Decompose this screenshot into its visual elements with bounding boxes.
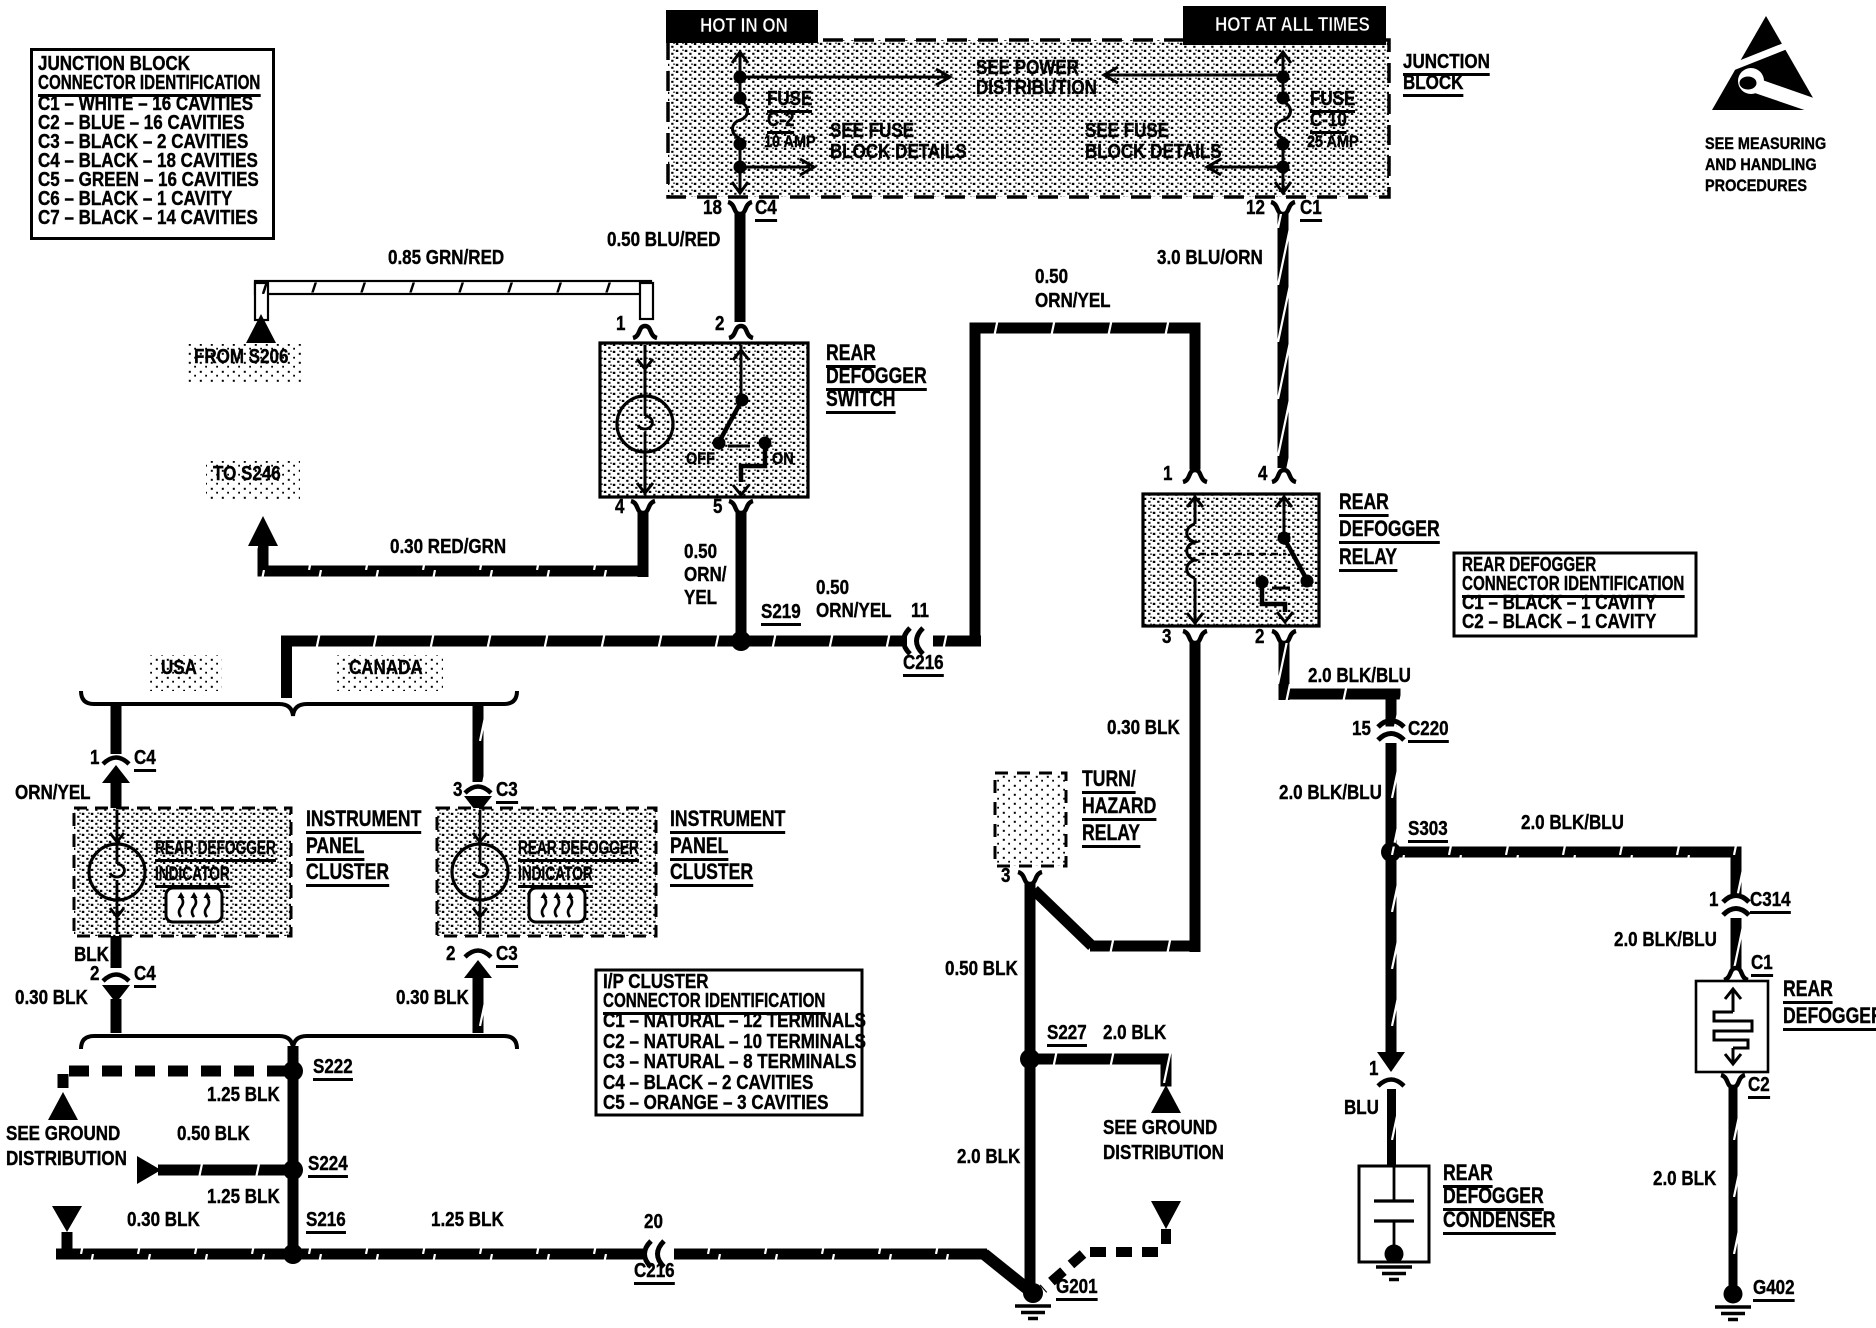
label DISTRIBUTION [976,78,1097,98]
label REAR [1339,491,1389,517]
coil leg bottom arrowhead [1187,613,1203,623]
label BLU [1344,1098,1379,1118]
label 2 [90,964,99,984]
label 1.25 BLK [207,1187,280,1207]
label C1 - WHITE - 16 CAVITIES [38,94,253,114]
label REAR [1443,1162,1493,1188]
label JUNCTION [1403,52,1490,76]
switch fixed contact dot [736,394,749,407]
arrow from hot at all times line (left-pointing) [1106,74,1277,77]
label 1.25 BLK [431,1210,504,1230]
see ground distribution arrow (right triangle) [137,1156,161,1184]
switch lamp leg line top [644,345,647,396]
label C1 - BLACK - 1 CAVITY [1462,593,1656,613]
label PANEL [306,835,364,861]
wire 0.50 ORN/YEL horizontal through S219 [281,636,907,647]
elbow right [1279,689,1401,700]
relay common contact dot [1256,576,1269,589]
label REAR [1783,978,1833,1004]
ground distribution down triangle (dashed branch) [1151,1201,1181,1229]
see ground distribution arrow (up triangle) [1151,1085,1181,1113]
fuse C-10 bottom arrow [1275,182,1291,193]
switch pin 1 bell [633,326,657,338]
label CONNECTOR IDENTIFICATION [38,73,260,97]
label S219 [761,602,801,626]
ON contact step down to pin 5 [741,443,765,482]
label SEE FUSE [830,121,914,141]
connector C4 cavity 2 crescent [103,975,129,982]
label CONNECTOR IDENTIFICATION [603,991,825,1015]
label 5 [713,497,722,517]
label C1 [1751,953,1773,977]
label TO S246 [213,464,281,484]
label C4 [134,748,156,772]
label SEE GROUND [6,1124,120,1144]
switch lever (to OFF contact) [719,400,742,442]
wire 0.50 BLK into S224 [158,1165,298,1176]
top split brace [81,691,517,716]
rear defogger switch box (stippled) [600,343,808,497]
relay coil leg line [1194,496,1197,524]
instrument panel cluster USA box (dashed, stippled) [74,808,291,936]
label C-10 [1310,110,1347,134]
FROM S206 arrow (up triangle) [246,314,276,343]
label JUNCTION BLOCK [38,54,190,74]
connector C4 cavity 1 crescent [103,758,129,765]
label REAR DEFOGGER [518,839,639,862]
label RELAY [1082,822,1140,848]
lamp leg bottom arrowhead [637,483,653,493]
USA branch wire upper [111,706,122,754]
label C1 [1300,198,1322,222]
label SWITCH [826,388,895,414]
label 25 AMP [1307,133,1359,150]
label REAR DEFOGGER [155,839,276,862]
switch pin 5 bell [729,501,753,513]
label USA [161,658,197,678]
label C216 [903,653,944,677]
CANADA indicator lamp leg top [479,810,482,844]
bottom 1.25 BLK wire right segment [674,1249,987,1260]
turn/hazard relay box (dashed, light stipple) [995,773,1066,866]
label 1 [1163,464,1172,484]
label C4 - BLACK - 2 CAVITIES [603,1073,813,1093]
relay switch leg from pin 4 [1283,496,1286,534]
connector C314 cavity 1 (inline crescents) [1723,896,1749,916]
label 1.25 BLK [207,1085,280,1105]
USA indicator lamp leg bottom [116,900,119,934]
label CONDENSER [1443,1209,1555,1235]
switch pin 2 bell [729,326,753,338]
label 0.30 RED/GRN [390,537,506,557]
OFF contact dot [713,437,726,450]
TO S246 arrow (up triangle) [248,516,278,546]
G402 ground symbol [1715,1307,1751,1320]
top horizontal 0.50 ORN/YEL wire [970,323,1201,334]
label ORN/YEL [1035,291,1111,311]
fuse C-2 element (squiggle) [733,102,748,138]
node dots on fuse C-2 line [734,71,747,84]
label S224 [308,1154,348,1178]
drop to relay pin 1 [1190,323,1201,470]
label S222 [313,1057,353,1081]
stub below triangle [62,1232,73,1256]
label BLOCK DETAILS [1085,142,1222,162]
wire 2.0 BLK from S227 down to G201 [1025,1059,1036,1287]
label 2.0 BLK/BLU [1279,783,1382,803]
label FUSE [767,89,812,113]
fuse C-10 top arrow [1275,52,1291,63]
wire BLK below USA box [111,936,122,968]
label REAR DEFOGGER [1462,555,1596,575]
label 11 [911,601,929,621]
CANADA defogger indicator icon [529,888,585,922]
label 3.0 BLU/ORN [1157,248,1263,268]
dashed 1.25 BLK wire from S222 left [62,1066,287,1077]
label SEE GROUND [1103,1118,1217,1138]
fuse C-10 vertical line [1282,52,1285,104]
label SEE FUSE [1085,121,1169,141]
wire 0.50 BLK from turn/hazard pin 3 down to S227 [1025,884,1036,1065]
drop to C314 [1731,847,1742,896]
label 0.30 BLK [127,1210,200,1230]
label CONNECTOR IDENTIFICATION [1462,574,1684,598]
see ground distribution arrow (up triangle, left) [48,1092,78,1120]
G201 ground dot [1023,1283,1043,1303]
label INDICATOR [155,865,230,888]
label C-2 [767,110,794,134]
relay switch leg arrowhead up [1276,497,1292,507]
label 0.50 BLK [177,1124,250,1144]
label 0.50 [816,578,849,598]
label C220 [1408,719,1449,743]
rear defogger C1 bell [1724,968,1748,980]
USA indicator lamp leg top [116,810,119,844]
bottom merge brace [81,1036,517,1049]
label RELAY [1339,546,1397,572]
node dots on fuse C-10 line [1277,71,1290,84]
thin wire 0.85 GRN/RED (double-line with hatch) [255,281,653,320]
connector C3 cavity 2 crescent [465,951,491,958]
coil leg bottom [1194,578,1197,624]
ESD warning triangle symbol [1712,16,1828,116]
bottom 0.30 BLK down triangle [52,1206,82,1232]
connector C4 cavity 2 arrow down [102,985,130,1003]
label DEFOGGER [826,365,927,391]
wire from switch pin 5 down to S219 [736,513,747,647]
S222 splice dot [283,1061,303,1081]
pin 2 inner arrowhead [1277,612,1293,622]
USA branch wire lower (ORN/YEL) [111,779,122,809]
label G201 [1056,1277,1098,1301]
pin 12 connector C1 (bell) [1271,202,1295,214]
label 2 [1255,627,1264,647]
diagonal wire to turn/hazard pin 3 [1034,890,1092,946]
label BLOCK DETAILS [830,142,967,162]
label DEFOGGER [1339,518,1440,544]
elbow to turn/hazard relay [1090,941,1196,952]
label C7 - BLACK - 14 CAVITIES [38,208,258,228]
relay coil [1187,524,1195,578]
fuse C-2 top arrow [732,52,748,63]
S216 splice dot [283,1244,303,1264]
wire drop from ORN/YEL to country split [281,641,292,698]
label DISTRIBUTION [1103,1143,1224,1163]
FROM S206 label stipple background [186,344,302,382]
label OFF [686,450,715,467]
condenser ground dot [1385,1245,1404,1264]
label C3 [496,780,518,804]
label 2.0 BLK/BLU [1521,813,1624,833]
label FROM S206 [194,347,288,367]
CANADA rear defogger indicator bulb [452,844,508,900]
label 0.30 BLK [15,988,88,1008]
label REAR [826,342,876,368]
wire 0.30 RED/GRN horizontal [258,566,649,577]
label 4 [1258,464,1267,484]
label 3 [453,780,462,800]
label CLUSTER [306,861,389,887]
fuse C-2 bottom arrow [732,182,748,193]
wire from relay pin 3 down (0.30 BLK) [1190,643,1201,952]
label 0.50 BLU/RED [607,230,720,250]
label 1 [616,314,625,334]
label C2 - NATURAL - 10 TERMINALS [603,1032,866,1052]
label SEE POWER [976,58,1079,78]
label PROCEDURES [1705,177,1807,194]
relay pin 2 bell [1272,631,1296,643]
rear defogger grid element [1714,1012,1752,1048]
G402 ground dot [1724,1285,1743,1304]
label 10 AMP [764,133,816,150]
ground bus wire from brace through S222 S224 S216 [288,1046,299,1254]
label 1 (S303 connector) [1369,1059,1378,1079]
wire 0.30 BLK to bottom brace [111,999,122,1033]
wire 2.0 BLK/BLU from C314 to rear defogger C1 [1731,918,1742,968]
connector C3 cavity 3 arrow down [464,796,492,814]
label 0.50 [684,542,717,562]
switch bulb [617,396,673,452]
coil leg top arrowhead [1187,497,1203,507]
label INSTRUMENT [306,808,421,834]
wire 2.0 BLK down to G402 [1729,1087,1738,1288]
label 3 [1001,866,1010,886]
connector C216 cavity 20 (inline crescents) [645,1241,665,1267]
label 15 [1352,719,1371,739]
label C2 - BLACK - 1 CAVITY [1462,612,1656,632]
label C216 [634,1261,675,1285]
label ON [772,450,794,467]
USA label stipple background [148,655,222,691]
label SEE MEASURING [1705,135,1826,152]
label C314 [1750,890,1791,914]
CANADA label stipple background [336,655,443,691]
ON contact dot [759,437,772,450]
wire 3.0 BLU/ORN from pin 12 down to relay pin 4 [1278,214,1289,468]
wire BLU to condenser [1387,1089,1396,1166]
label G402 [1753,1278,1795,1302]
bottom 1.25 BLK wire left segment [56,1249,646,1260]
throw dash between OFF and ON [728,445,750,448]
rear defogger element line + arrows [1725,989,1741,999]
label S303 [1408,819,1448,843]
label C4 [134,964,156,988]
USA defogger indicator icon [166,888,222,922]
wire from switch pin 4 down [638,513,649,577]
wire 0.30 BLK below CANADA box [473,974,484,1033]
connector C3 cavity 2 arrow up [464,960,492,978]
connector C220 cavity 15 (inline crescents) [1378,721,1404,741]
label 18 [703,198,722,218]
label HOT AT ALL TIMES [1215,15,1370,35]
label 2 [446,944,455,964]
drop to C220 [1386,689,1397,727]
label C3 [496,944,518,968]
arrow see fuse block details right fuse (left-pointing) [1209,166,1277,169]
label INDICATOR [518,865,593,888]
relay contact dash [1272,587,1290,590]
wire 2.0 BLK from S227 right [1030,1054,1171,1065]
label INSTRUMENT [670,808,785,834]
condenser capacitor symbol [1393,1166,1396,1200]
S219 splice dot [731,631,751,651]
label C5 - GREEN - 16 CAVITIES [38,170,259,190]
relay pin 3 bell [1183,631,1207,643]
riser wire up [970,323,981,647]
relay dashed actuation line [1199,553,1286,556]
rear defogger C2 bell [1721,1075,1745,1087]
label AND HANDLING [1705,156,1817,173]
junction block (stippled box, dashed border) [668,40,1389,197]
condenser ground symbol [1376,1267,1412,1280]
dashed wire from triangle to G201 [1161,1229,1171,1250]
CANADA indicator lamp leg bottom [479,900,482,934]
relay lever [1284,538,1307,580]
label HAZARD [1082,795,1156,821]
USA rear defogger indicator bulb [89,844,145,900]
TO S246 label stipple background [206,461,300,499]
wire 0.50 BLU/RED from fuse C-2 pin 18 down to switch pin 2 [735,214,746,322]
wire from S303 down to condenser [1386,852,1397,1053]
wire right of C216 to riser [933,636,981,647]
label C5 - ORANGE - 3 CAVITIES [603,1093,828,1113]
label 2.0 BLK/BLU [1614,930,1717,950]
label 0.30 BLK [1107,718,1180,738]
label C1 - NATURAL - 12 TERMINALS [603,1011,866,1031]
label CANADA [349,658,423,678]
label C6 - BLACK - 1 CAVITY [38,189,232,209]
label I/P CLUSTER [603,972,708,992]
label 0.85 GRN/RED [388,248,504,268]
wire 2.0 BLK/BLU from C220 down to S303 [1386,743,1397,857]
label C2 [1748,1075,1770,1099]
label BLOCK [1403,73,1463,97]
label ORN/ [684,565,727,585]
label C2 - BLUE - 16 CAVITIES [38,113,245,133]
label S227 [1047,1023,1087,1047]
label 0.50 BLK [945,959,1018,979]
label 2.0 BLK/BLU [1308,666,1411,686]
switch pin 4 bell [631,501,655,513]
label C4 [755,198,777,222]
connector C4 cavity 1 arrow up [102,765,130,783]
label CLUSTER [670,861,753,887]
label 0.30 BLK [396,988,469,1008]
relay common step to pin 2 [1262,582,1285,612]
label 4 [615,497,624,517]
label ORN/YEL [816,601,892,621]
fuse C-2 vertical line [739,52,742,104]
label 1 [1709,890,1718,910]
label 3 [1162,627,1171,647]
arrow see fuse block details left fuse [746,166,810,169]
diagonal into G201 [984,1254,1030,1291]
rear defogger connector identification box [1454,553,1696,636]
HOT AT ALL TIMES banner [1183,6,1386,45]
label DISTRIBUTION [6,1149,127,1169]
wire 2.0 BLK/BLU from S303 right [1391,847,1736,858]
relay pin 1 bell [1183,470,1207,482]
label 0.50 [1035,267,1068,287]
label FUSE [1310,89,1355,113]
label HOT IN ON [700,16,788,36]
arrow to see power distribution (right) [746,76,948,79]
connector C3 cavity 3 crescent [465,787,491,794]
connector 1 crescent [1378,1080,1404,1087]
relay fixed contact dot [1278,532,1291,545]
label 2 [715,314,724,334]
contact leg arrowhead up [733,350,749,360]
S224 splice dot [283,1160,303,1180]
label 1 [90,748,99,768]
relay NO contact dot [1301,575,1314,588]
label TURN/ [1082,768,1136,794]
I/P cluster connector identification box [596,970,862,1115]
label 20 [644,1212,663,1232]
label YEL [684,588,717,608]
label ORN/YEL [15,783,91,803]
label PANEL [670,835,728,861]
G201 ground symbol [1015,1306,1051,1319]
rear defogger box [1696,981,1768,1072]
S227 splice dot [1020,1049,1040,1069]
relay pin 4 bell [1272,470,1296,482]
label BLK [74,945,109,965]
pin 5 inner arrowhead [733,485,749,495]
label DEFOGGER [1783,1005,1876,1031]
label C4 - BLACK - 18 CAVITIES [38,151,258,171]
turn/hazard relay pin 3 bell [1018,872,1042,884]
elbow down [1161,1054,1172,1087]
pin 18 connector C4 (bell) [728,202,752,214]
connector C216 cavity 11 (inline crescents) [904,628,924,654]
label DEFOGGER [1443,1185,1544,1211]
label C3 - BLACK - 2 CAVITIES [38,132,248,152]
connector 1 arrow (solid down triangle) [1377,1052,1405,1072]
label 2.0 BLK [1103,1023,1166,1043]
label 12 [1246,198,1265,218]
wire from relay pin 2 down (2.0 BLK/BLU) [1279,643,1290,700]
instrument panel cluster CANADA box (dashed, stippled) [437,808,656,936]
wire stub up to TO S246 arrow [258,545,269,567]
label C3 - NATURAL - 8 TERMINALS [603,1052,856,1072]
label S216 [306,1210,346,1234]
junction block connector identification box [30,48,275,240]
lamp leg arrowhead [637,359,653,369]
S303 splice dot [1381,842,1401,862]
label 2.0 BLK [1653,1169,1716,1189]
CANADA branch wire [473,706,484,782]
